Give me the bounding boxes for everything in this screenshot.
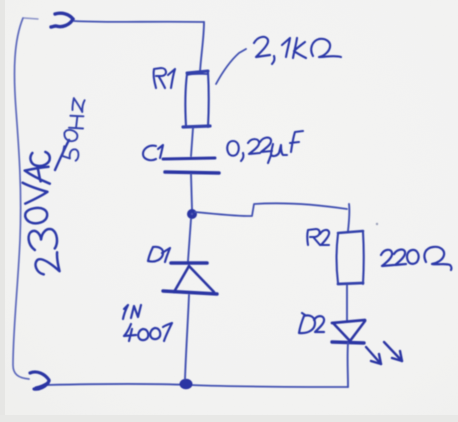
wire left rail [13,18,38,379]
terminal bottom-left [30,372,49,389]
resistor R2 [337,231,364,284]
label 230 VAC 50Hz [20,152,59,276]
node junction top [189,211,195,217]
LED arrow 2 [384,342,402,361]
wire R2 to D2 [346,285,348,320]
diode D1 [163,263,217,294]
label D1 [148,247,170,262]
wire C1 to node [191,174,192,209]
label 220 ohm value [381,247,451,270]
wire D2 to bottom [347,343,349,387]
label R2 [307,229,329,245]
ink speck [376,223,378,225]
label D2 [299,313,324,333]
wire corner down to R2 [348,204,349,231]
capacitor C1 [163,158,219,173]
LED arrow 1 [366,347,381,364]
resistor R1 [183,71,210,127]
node junction bottom [180,379,192,389]
wire R1 to C1 [191,128,193,156]
wire bottom [47,384,348,387]
label 2,1k ohm value [254,37,341,64]
LED D2 [332,320,365,343]
label 50Hz [60,98,90,161]
label slash [55,140,69,170]
wire node to right branch [195,203,347,216]
wire node to D1 [188,219,191,261]
wire top [74,21,204,22]
wire top corner down to R1 [200,22,204,72]
leader line for R1 value [216,49,246,84]
label 1N4007 [123,305,172,341]
terminal top-left [51,13,73,27]
label 0,22uF value [227,131,303,163]
label C1 [143,145,163,160]
label R1 [154,68,175,88]
wire D1 to bottom node [185,295,189,379]
